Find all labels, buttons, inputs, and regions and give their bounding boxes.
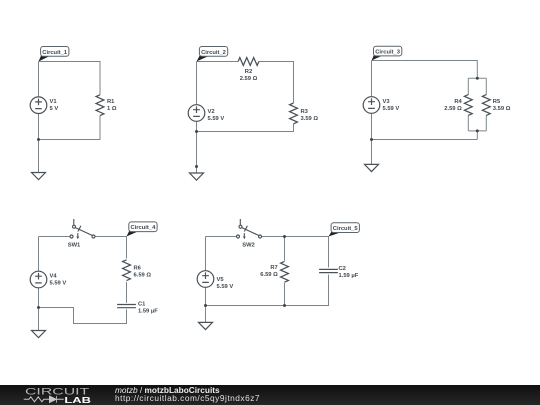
svg-text:Circuit_5: Circuit_5 <box>333 226 359 232</box>
svg-text:3.59 Ω: 3.59 Ω <box>493 106 511 112</box>
svg-text:5 V: 5 V <box>50 106 59 112</box>
svg-text:Circuit_4: Circuit_4 <box>130 225 156 231</box>
svg-text:R4: R4 <box>454 99 462 105</box>
svg-text:3.59 Ω: 3.59 Ω <box>301 116 319 122</box>
svg-text:C1: C1 <box>138 302 146 308</box>
svg-text:Circuit_2: Circuit_2 <box>201 50 226 56</box>
svg-text:SW1: SW1 <box>68 243 81 249</box>
svg-text:V3: V3 <box>383 99 391 105</box>
svg-text:1.59 µF: 1.59 µF <box>138 309 158 315</box>
svg-text:1.59 µF: 1.59 µF <box>339 273 359 279</box>
svg-text:Circuit_3: Circuit_3 <box>375 50 401 56</box>
svg-text:LAB: LAB <box>64 396 91 405</box>
svg-text:V4: V4 <box>50 274 58 280</box>
svg-text:SW2: SW2 <box>242 243 255 249</box>
svg-text:2.59 Ω: 2.59 Ω <box>240 76 258 82</box>
svg-text:5.59 V: 5.59 V <box>217 284 234 290</box>
svg-text:6.59 Ω: 6.59 Ω <box>134 273 152 279</box>
svg-text:5.59 V: 5.59 V <box>383 106 400 112</box>
svg-text:R5: R5 <box>493 99 501 105</box>
svg-text:R7: R7 <box>270 265 277 271</box>
svg-text:R1: R1 <box>107 99 115 105</box>
svg-text:V1: V1 <box>50 99 58 105</box>
svg-text:R6: R6 <box>134 266 142 272</box>
svg-text:6.59 Ω: 6.59 Ω <box>260 272 278 278</box>
svg-text:R3: R3 <box>301 109 309 115</box>
svg-text:2.59 Ω: 2.59 Ω <box>444 106 462 112</box>
svg-text:1 Ω: 1 Ω <box>107 106 117 112</box>
svg-text:Circuit_1: Circuit_1 <box>42 50 68 56</box>
svg-text:5.59 V: 5.59 V <box>50 281 67 287</box>
svg-text:V2: V2 <box>208 109 215 115</box>
svg-text:V5: V5 <box>217 277 225 283</box>
svg-text:C2: C2 <box>339 266 346 272</box>
svg-text:5.59 V: 5.59 V <box>208 116 225 122</box>
svg-text:R2: R2 <box>245 69 252 75</box>
